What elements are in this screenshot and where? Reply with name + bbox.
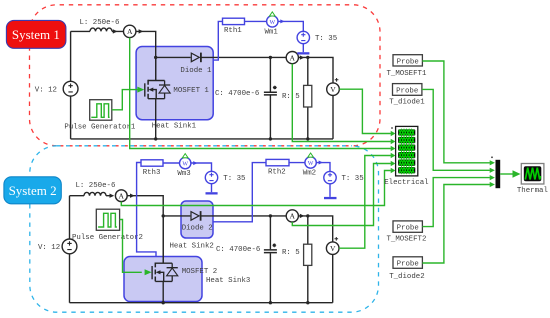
svg-text:Thermal: Thermal (517, 187, 549, 195)
wire: V2 measurement to electrical in4 (green) (339, 156, 391, 249)
wire arrow after Wm3 (blue) (193, 161, 197, 165)
voltmeter V2 sys2 (326, 237, 339, 303)
wire: A3 measurement to electrical in6 (green) (121, 171, 391, 206)
wire: probe4 to mux in4 (green) (422, 185, 490, 264)
node: drain junction sys2 (162, 214, 165, 217)
svg-text:Wm2: Wm2 (303, 169, 316, 177)
voltmeter V1 sys1 (327, 78, 340, 139)
svg-text:A: A (119, 192, 125, 201)
svg-text:T: 35: T: 35 (223, 175, 245, 183)
resistor R1 sys1 (282, 57, 312, 138)
system 2 dashed boundary (30, 146, 379, 312)
wire: Rth1 to Wm1 (blue) (245, 20, 267, 22)
thermal resistor Rth1 (223, 18, 245, 35)
wire arrow after A4 sys2 (300, 214, 305, 218)
svg-text:Electrical: Electrical (384, 179, 429, 187)
MOSFET Q2 symbol (152, 216, 217, 303)
wire: pulse gen2 to gate (green) (120, 220, 142, 273)
wire: A2 sys1 measurement to electrical in2 (green) (292, 64, 391, 142)
node: R top junction sys2 (306, 214, 309, 217)
svg-text:W: W (182, 162, 188, 168)
probe block Probe T_diode2 (389, 257, 424, 281)
wire: Wm2 to T source (blue) (316, 163, 330, 172)
probe block Probe T_MOSEFT1 (387, 55, 427, 78)
probe block Probe T_diode1 (389, 84, 425, 107)
mux bar (496, 160, 501, 188)
node: R2 bottom on bottom rail (306, 301, 309, 304)
wire: probe3 to mux in3 (green) (422, 178, 490, 227)
wire arrow after A1 (139, 29, 144, 33)
svg-text:L: 250e-6: L: 250e-6 (80, 19, 120, 27)
wire: sys1 left vertical (V source branch) (70, 31, 72, 138)
node: cap top junction sys1 (269, 56, 272, 59)
scope block Electrical (384, 126, 429, 187)
temperature source T3 sys2b (324, 171, 364, 183)
temperature source T1 sys1 (297, 31, 337, 43)
System 2 label (4, 177, 61, 204)
wire arrow before A3 (110, 194, 115, 198)
svg-text:Heat Sink1: Heat Sink1 (152, 123, 197, 131)
voltage source V2 sys2 (38, 239, 77, 254)
gate arrow sys1 (137, 87, 144, 93)
svg-text:T_MOSEFT1: T_MOSEFT1 (387, 70, 427, 78)
svg-text:C: 4700e-6: C: 4700e-6 (215, 90, 259, 98)
wire: thermal heat sink3 to Rth3 (blue) (137, 163, 156, 257)
wire: sys2 bottom rail (70, 302, 333, 304)
svg-text:Rth3: Rth3 (143, 169, 161, 177)
node: drain junction sys1 (154, 56, 157, 59)
svg-text:R: 5: R: 5 (282, 249, 300, 257)
svg-text:W: W (308, 161, 314, 167)
svg-text:System 2: System 2 (9, 183, 57, 198)
pulse generator 1 (64, 100, 136, 132)
svg-text:MOSFET 1: MOSFET 1 (173, 87, 209, 95)
svg-text:V: 12: V: 12 (35, 86, 57, 94)
wire arrow after A2 sys1 (300, 55, 305, 59)
gate arrow sys2 (145, 269, 152, 275)
wire: A1 measurement to electrical in3 (green) (130, 38, 391, 149)
heat flow sensor Wm3 (177, 154, 191, 178)
electrical input arrows (green) (391, 131, 396, 137)
wire: Rth2 to Wm2 (blue) (289, 162, 305, 164)
svg-text:Wm1: Wm1 (265, 28, 279, 36)
voltage source V1 sys1 (35, 81, 78, 96)
svg-text:Probe: Probe (396, 88, 418, 96)
wire: mux to thermal scope (green) (500, 173, 512, 175)
svg-text:Probe: Probe (397, 261, 419, 269)
wire: sys1 top rail (71, 31, 156, 80)
svg-text:Heat Sink3: Heat Sink3 (206, 277, 250, 285)
node: mosfet2 source on bottom rail (162, 301, 165, 304)
svg-text:A: A (290, 53, 296, 62)
probe block Probe T_MOSEFT2 (387, 221, 427, 244)
wire: thermal heat sink2 to Rth2 (blue) (213, 163, 266, 222)
wire: Rth3 to Wm3 (blue) (163, 162, 180, 164)
ground sys2a thermal (blue) (206, 184, 218, 195)
wire: thermal heat sink1 to Rth1 (blue) (213, 21, 222, 60)
svg-text:Rth1: Rth1 (224, 27, 242, 35)
node: R top junction sys1 (306, 56, 309, 59)
heat sink box Heat Sink1 (136, 47, 213, 131)
wire: Wm3 to T source (blue) (191, 163, 212, 171)
svg-text:Diode 1: Diode 1 (180, 67, 212, 75)
capacitor C1 (215, 57, 277, 138)
svg-text:Wm3: Wm3 (177, 170, 190, 178)
svg-text:T: 35: T: 35 (315, 35, 337, 43)
thermal resistor Rth2 (266, 159, 289, 176)
wire arrow after A3 (130, 194, 135, 198)
svg-text:Heat Sink2: Heat Sink2 (170, 243, 214, 251)
svg-text:System 1: System 1 (12, 27, 60, 42)
wire: pulse gen1 to gate (green) (112, 90, 138, 110)
svg-text:MOSFET 2: MOSFET 2 (182, 268, 217, 276)
svg-text:W: W (269, 20, 275, 26)
wire: sys2 left vertical (V source branch) (69, 196, 71, 303)
heat flow sensor Wm1 (265, 12, 279, 36)
svg-text:V: V (330, 85, 336, 94)
svg-text:T_diode1: T_diode1 (389, 98, 425, 106)
system 1 dashed boundary (30, 5, 381, 146)
resistor R2 sys2 (282, 216, 312, 303)
mux port dot (491, 156, 493, 158)
svg-text:T_diode2: T_diode2 (389, 273, 424, 281)
ammeter A1 sys1 (124, 25, 136, 37)
ground sys1 thermal (blue) (297, 44, 309, 55)
ammeter A4 sys2 mid (286, 210, 298, 222)
wire arrow after Wm1 (blue) (280, 19, 284, 23)
diode D1 (180, 53, 212, 75)
System 1 label (6, 20, 66, 48)
pulse generator 2 (72, 209, 143, 242)
scope block Thermal (517, 164, 549, 195)
node: R bottom on bottom rail (306, 137, 309, 140)
diode D2 (191, 211, 201, 221)
svg-text:V: V (330, 244, 336, 253)
ammeter A3 sys2 (115, 190, 127, 202)
svg-text:A: A (127, 27, 133, 36)
mux input arrows (green) (490, 160, 495, 165)
svg-text:Probe: Probe (397, 225, 419, 233)
wire: sys2 top rail (70, 196, 164, 264)
svg-text:A: A (290, 212, 296, 221)
wire: V1 measurement to electrical in1 (green) (339, 89, 391, 133)
svg-text:R: 5: R: 5 (282, 93, 300, 101)
node: cap bottom on bottom rail (269, 137, 272, 140)
svg-text:Pulse Generator1: Pulse Generator1 (64, 124, 136, 132)
wire: probe1 to mux in1 (green) (422, 61, 490, 163)
svg-text:Diode 2: Diode 2 (182, 224, 213, 232)
ammeter A2 sys1 mid (286, 52, 298, 64)
wire: diode row sys1 (156, 57, 333, 83)
heat sink box Heat Sink2 (diode 2) (170, 201, 214, 251)
node: cap2 bottom on bottom rail (269, 301, 272, 304)
inductor L1 sys1 (80, 19, 120, 32)
wire: diode row sys2 (163, 216, 333, 242)
svg-text:Pulse Generator2: Pulse Generator2 (72, 234, 143, 242)
wire arrow after Wm2 (blue) (319, 161, 323, 165)
svg-text:Probe: Probe (397, 58, 419, 66)
wire: probe2 to mux in2 (green) (422, 89, 490, 170)
thermal scope arrow (green) (513, 170, 521, 178)
shared dashed segment red/cyan alternation (57, 145, 352, 147)
svg-text:Rth2: Rth2 (268, 168, 286, 176)
heat sink box Heat Sink3 (mosfet 2) (124, 257, 250, 302)
svg-text:T_MOSEFT2: T_MOSEFT2 (387, 235, 427, 243)
wire: A4 measurement to electrical in5 (green) (292, 164, 391, 226)
ground sys2b thermal (blue) (324, 184, 337, 199)
inductor L2 sys2 (76, 182, 116, 196)
svg-text:L: 250e-6: L: 250e-6 (76, 182, 116, 190)
wire arrow before A1 (113, 29, 118, 33)
wire: Wm1 to T source (blue) (278, 21, 304, 31)
temperature source T2 sys2a (205, 171, 245, 183)
MOSFET Q1 symbol (145, 57, 210, 138)
capacitor C2 (216, 216, 277, 303)
node: cap top junction sys2 (269, 214, 272, 217)
thermal resistor Rth3 (141, 160, 163, 177)
node: mosfet source on bottom rail (154, 137, 157, 140)
svg-text:V: 12: V: 12 (38, 244, 60, 252)
wire: sys1 bottom rail (71, 138, 333, 140)
svg-text:C: 4700e-6: C: 4700e-6 (216, 246, 260, 254)
heat flow sensor Wm2 (303, 153, 317, 177)
svg-text:T: 35: T: 35 (342, 175, 364, 183)
